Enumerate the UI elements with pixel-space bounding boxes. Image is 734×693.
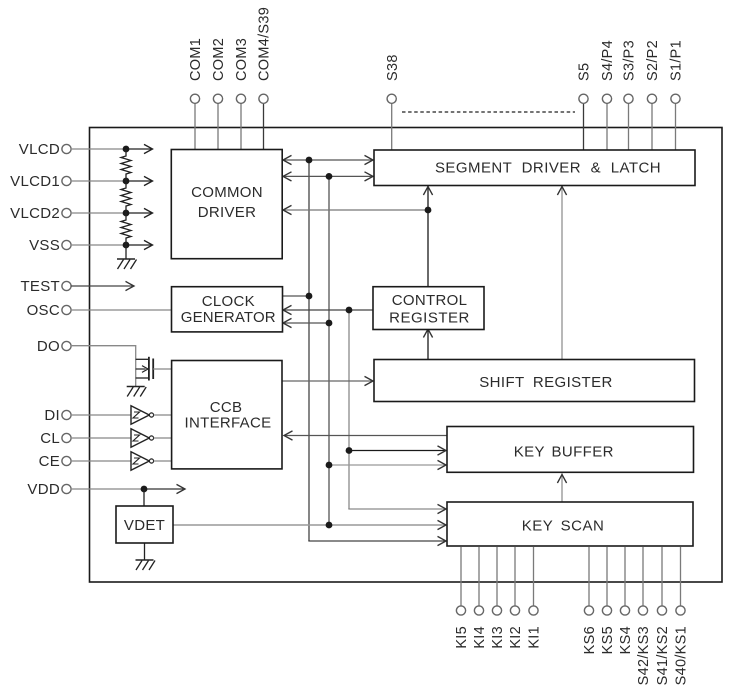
svg-text:KI2: KI2 bbox=[508, 626, 524, 649]
svg-text:TEST: TEST bbox=[20, 278, 60, 295]
svg-text:KS4: KS4 bbox=[618, 626, 634, 654]
svg-text:VLCD2: VLCD2 bbox=[10, 205, 60, 222]
svg-text:VSS: VSS bbox=[29, 237, 60, 254]
svg-text:KS6: KS6 bbox=[582, 626, 598, 654]
svg-text:INTERFACE: INTERFACE bbox=[185, 415, 272, 432]
svg-text:S40/KS1: S40/KS1 bbox=[674, 626, 690, 685]
svg-text:KI5: KI5 bbox=[454, 626, 470, 649]
svg-text:S42/KS3: S42/KS3 bbox=[636, 626, 652, 685]
svg-text:S5: S5 bbox=[577, 63, 593, 81]
svg-text:DRIVER: DRIVER bbox=[198, 204, 256, 221]
svg-text:GENERATOR: GENERATOR bbox=[181, 309, 276, 326]
svg-text:CCB: CCB bbox=[210, 399, 243, 416]
svg-text:REGISTER: REGISTER bbox=[389, 309, 470, 326]
svg-text:CLOCK: CLOCK bbox=[202, 293, 255, 310]
svg-text:S2/P2: S2/P2 bbox=[645, 40, 661, 81]
svg-text:KI1: KI1 bbox=[527, 626, 543, 649]
svg-text:VLCD1: VLCD1 bbox=[10, 173, 60, 190]
svg-text:S1/P1: S1/P1 bbox=[669, 40, 685, 81]
svg-text:OSC: OSC bbox=[27, 302, 60, 319]
svg-text:S3/P3: S3/P3 bbox=[622, 40, 638, 81]
svg-text:S38: S38 bbox=[385, 54, 401, 81]
svg-text:KEY BUFFER: KEY BUFFER bbox=[514, 444, 614, 461]
svg-text:COM2: COM2 bbox=[211, 38, 227, 81]
svg-text:COM3: COM3 bbox=[234, 38, 250, 81]
svg-text:DO: DO bbox=[37, 338, 60, 355]
svg-text:CONTROL: CONTROL bbox=[392, 292, 467, 309]
svg-text:CE: CE bbox=[39, 453, 60, 470]
svg-text:KS5: KS5 bbox=[600, 626, 616, 654]
svg-text:S41/KS2: S41/KS2 bbox=[655, 626, 671, 685]
svg-text:VDD: VDD bbox=[27, 481, 60, 498]
svg-text:S4/P4: S4/P4 bbox=[600, 40, 616, 81]
svg-text:CL: CL bbox=[40, 430, 60, 447]
svg-text:KEY SCAN: KEY SCAN bbox=[522, 517, 605, 534]
svg-text:VDET: VDET bbox=[124, 517, 165, 534]
svg-text:COM1: COM1 bbox=[188, 38, 204, 81]
svg-text:COM4/S39: COM4/S39 bbox=[257, 7, 273, 81]
svg-text:KI3: KI3 bbox=[490, 626, 506, 649]
svg-text:KI4: KI4 bbox=[472, 626, 488, 649]
svg-text:DI: DI bbox=[44, 407, 60, 424]
svg-text:COMMON: COMMON bbox=[191, 184, 263, 201]
svg-text:VLCD: VLCD bbox=[19, 141, 60, 158]
svg-text:SEGMENT DRIVER & LATCH: SEGMENT DRIVER & LATCH bbox=[435, 160, 661, 177]
svg-text:SHIFT REGISTER: SHIFT REGISTER bbox=[479, 374, 613, 391]
